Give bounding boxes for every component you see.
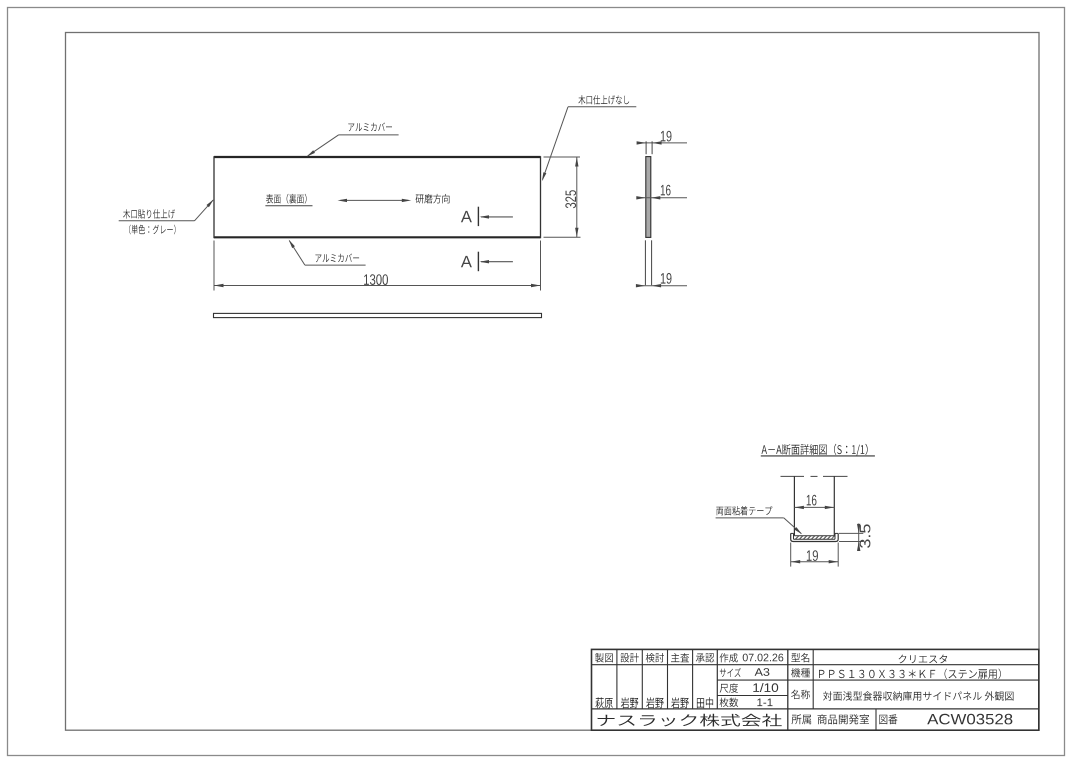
scale row 尺度 1/10 — [720, 683, 779, 693]
label surface text 表面（裏面） underlined — [265, 194, 312, 206]
bottom strip (edge view of panel) — [214, 313, 542, 317]
section detail title A－A断面詳細図（S：1/1） — [761, 444, 875, 456]
model name row 型名 クリエスタ — [791, 653, 947, 663]
title block header labels — [595, 653, 714, 663]
section: break line — [781, 475, 848, 477]
side view bottom dimension 19 — [636, 273, 687, 288]
side view middle dimension 16 — [636, 185, 687, 200]
label aluminum cover top アルミカバー with leader — [307, 123, 399, 157]
side view lower edge lines — [645, 240, 651, 285]
created date row 作成 07.02.26 — [720, 653, 784, 663]
dimension 325 — [544, 157, 581, 237]
polish direction double arrow — [338, 199, 412, 202]
approval name stamps — [596, 697, 714, 708]
dimension 1300 — [214, 241, 541, 291]
section dimension 3.5 — [839, 524, 870, 552]
section: aluminum cover channel — [791, 533, 839, 541]
company name ナスラック株式会社 — [598, 714, 782, 727]
section dimension 16 — [794, 495, 834, 509]
side view top dimension 19 — [637, 131, 687, 155]
section: panel side lines — [794, 476, 834, 535]
section dimension 19 — [791, 543, 839, 567]
title block grid lines — [592, 649, 1039, 730]
label edge finish 木口貼り仕上げ（単色：グレー） with leader — [119, 199, 214, 234]
title block frame — [592, 649, 1039, 730]
panel front view outline 1300x325 — [214, 156, 541, 238]
section cut mark A upper — [461, 207, 513, 226]
label no edge finish 木口仕上げなし with leader — [542, 95, 636, 181]
product name row 名称 対面浅型食器収納庫用サイドパネル 外観図 — [791, 690, 1013, 701]
drawing number row 図番 ACW03528 — [879, 714, 1012, 725]
sheets row 枚数 1-1 — [720, 698, 773, 707]
size row サイズ A3 — [720, 668, 770, 677]
label aluminum cover bottom アルミカバー with leader — [289, 240, 366, 266]
section cut mark A lower — [461, 252, 513, 272]
label 研磨方向 — [416, 194, 450, 204]
section: adhesive tape hatch — [794, 536, 834, 539]
side view panel core (hatched bar) — [646, 157, 651, 238]
label 両面粘着テープ with leader — [716, 506, 802, 534]
department row 所属 商品開発室 — [792, 714, 870, 724]
machine type row 機種 PPS130X33*KF（ステン扉用） — [791, 668, 1001, 679]
